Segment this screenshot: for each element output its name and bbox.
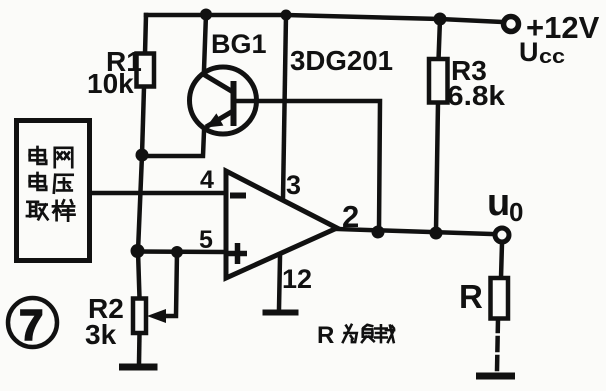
junction dot output at base line [372, 226, 385, 239]
ground below R load [476, 373, 515, 380]
wire R2 bottom lead [137, 333, 142, 364]
junction dot top rail at R3 [434, 13, 447, 26]
svg-text:5: 5 [199, 226, 213, 254]
svg-text:cc: cc [539, 46, 565, 68]
wire u0 terminal to R load [501, 243, 502, 278]
char 负 [362, 325, 374, 342]
transistor BG1 collector stroke [203, 74, 233, 92]
svg-text:0: 0 [509, 197, 523, 227]
char 取 (line3) [27, 202, 48, 219]
terminal +12V [504, 17, 519, 32]
junction dot top rail at collector [200, 9, 212, 21]
wire R1 bottom lead [142, 87, 144, 155]
svg-text:R: R [459, 278, 483, 315]
label 电网电压取样 (drawn glyphs) [27, 147, 75, 221]
svg-text:7: 7 [19, 301, 43, 350]
wire box output to pin4 [92, 191, 225, 196]
transistor BG1 base bar [231, 81, 237, 126]
svg-text:10k: 10k [87, 68, 134, 99]
resistor R1 body [137, 54, 155, 87]
wire emitter lead [142, 131, 204, 156]
svg-text:12: 12 [282, 264, 312, 294]
junction dot R1 bottom / emitter node [136, 149, 149, 162]
junction dot wiper node [171, 246, 183, 258]
svg-text:6.8k: 6.8k [447, 80, 505, 111]
wire R load dashed lead to ground [497, 319, 498, 371]
resistor R2 body (potentiometer) [133, 299, 146, 334]
transistor BG1 circle [190, 67, 257, 134]
resistor R3 body [429, 59, 448, 103]
wire pin5 line [138, 249, 223, 254]
svg-text:2: 2 [342, 199, 359, 234]
char 为 [343, 325, 357, 342]
wire op-amp pin3 to rail [283, 15, 286, 198]
resistor R2 wiper arrowhead [147, 309, 166, 323]
wire collector lead to rail [204, 14, 206, 70]
svg-text:BG1: BG1 [211, 29, 267, 59]
svg-text:3: 3 [286, 170, 301, 200]
terminal u0 [495, 228, 509, 242]
char 电 (line1) [30, 147, 47, 164]
wire base lead to output node [236, 101, 380, 230]
svg-text:3DG201: 3DG201 [290, 45, 393, 76]
resistor R load body [491, 278, 509, 319]
svg-text:u: u [487, 182, 510, 224]
wire R3 top lead [439, 19, 441, 60]
svg-text:3k: 3k [85, 319, 117, 350]
transistor BG1 emitter stroke with arrow [206, 111, 233, 127]
sampling block box 电网电压取样 [17, 121, 90, 261]
figure number 7 circle [8, 298, 57, 347]
op-amp inverting input minus sign [230, 193, 246, 199]
svg-text:4: 4 [200, 166, 214, 194]
junction dot top rail at pin3 [281, 10, 292, 21]
ground below R2 [119, 364, 158, 371]
char 样 (line3) [53, 200, 75, 220]
wire left vertical node line [138, 155, 142, 298]
svg-text:R: R [317, 322, 334, 349]
wire pin12 lead [279, 257, 280, 309]
wire output line [337, 229, 493, 234]
wire R2 wiper [163, 252, 177, 316]
wire R3 bottom lead [436, 102, 438, 231]
ground below pin12 [263, 310, 299, 316]
junction dot output at R3 line [430, 227, 443, 240]
wire R1 top lead [145, 15, 146, 54]
wire top supply rail [146, 15, 503, 22]
char 网 (line1) [55, 148, 72, 167]
char 载 [375, 325, 394, 342]
junction dot pin5 node [131, 244, 145, 258]
op-amp U1 triangle [226, 171, 337, 278]
char 电 (line2) [30, 173, 47, 190]
char 压 (line2) [54, 175, 73, 193]
svg-text:U: U [519, 37, 539, 67]
op-amp non-inverting input plus sign [228, 251, 247, 257]
